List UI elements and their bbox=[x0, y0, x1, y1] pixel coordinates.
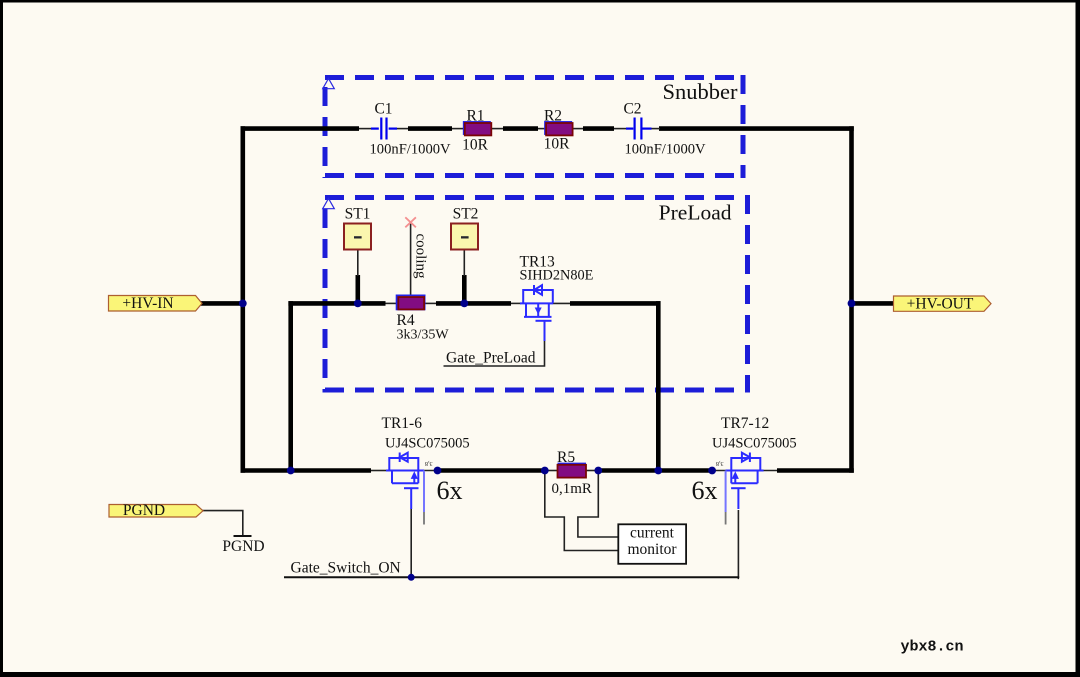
svg-text:R1: R1 bbox=[466, 108, 484, 125]
svg-text:+HV-IN: +HV-IN bbox=[122, 295, 173, 312]
svg-text:10R: 10R bbox=[544, 136, 571, 153]
svg-text:PGND: PGND bbox=[123, 502, 165, 519]
svg-text:UJ4SC075005: UJ4SC075005 bbox=[712, 436, 797, 452]
svg-text:0,1mR: 0,1mR bbox=[552, 481, 592, 497]
svg-text:TR7-12: TR7-12 bbox=[721, 415, 769, 432]
svg-text:monitor: monitor bbox=[627, 541, 677, 558]
svg-text:100nF/1000V: 100nF/1000V bbox=[370, 142, 452, 158]
svg-text:PreLoad: PreLoad bbox=[659, 201, 732, 225]
svg-text:TR1-6: TR1-6 bbox=[382, 415, 423, 432]
svg-text:+HV-OUT: +HV-OUT bbox=[907, 296, 974, 313]
svg-text:ST2: ST2 bbox=[453, 206, 479, 223]
svg-text:PGND: PGND bbox=[222, 538, 264, 555]
svg-text:Gate_Switch_ON: Gate_Switch_ON bbox=[291, 560, 401, 577]
svg-text:100nF/1000V: 100nF/1000V bbox=[625, 142, 707, 158]
svg-text:10R: 10R bbox=[462, 137, 489, 154]
svg-text:R2: R2 bbox=[544, 108, 562, 125]
svg-text:C2: C2 bbox=[623, 101, 641, 118]
svg-text:ST1: ST1 bbox=[345, 206, 371, 223]
svg-text:R4: R4 bbox=[397, 312, 415, 329]
svg-text:ybx8.cn: ybx8.cn bbox=[901, 639, 964, 656]
svg-text:C1: C1 bbox=[374, 101, 392, 118]
svg-text:6x: 6x bbox=[692, 476, 718, 505]
svg-text:3,8: 3,8 bbox=[425, 460, 433, 466]
svg-text:UJ4SC075005: UJ4SC075005 bbox=[385, 436, 470, 452]
svg-text:Gate_PreLoad: Gate_PreLoad bbox=[446, 350, 536, 367]
svg-text:current: current bbox=[630, 525, 675, 542]
svg-text:cooling: cooling bbox=[413, 234, 429, 279]
svg-text:3,8: 3,8 bbox=[716, 460, 724, 466]
svg-text:Snubber: Snubber bbox=[663, 79, 739, 104]
svg-text:SIHD2N80E: SIHD2N80E bbox=[520, 268, 594, 284]
svg-text:R5: R5 bbox=[557, 449, 575, 466]
svg-text:6x: 6x bbox=[437, 476, 463, 505]
svg-text:3k3/35W: 3k3/35W bbox=[397, 328, 450, 343]
